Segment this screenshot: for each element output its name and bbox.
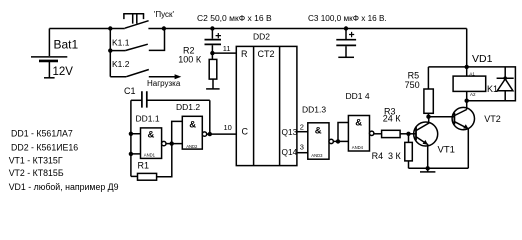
pushbutton 'Пуск' SB1 <box>123 10 174 28</box>
svg-text:&: & <box>189 119 196 130</box>
svg-text:DD2 - К561ИЕ16: DD2 - К561ИЕ16 <box>11 143 78 153</box>
resistor R1 <box>131 144 172 181</box>
parts list <box>9 128 119 192</box>
wire top rail right <box>148 28 466 30</box>
svg-text:750: 750 <box>405 80 420 90</box>
wire Q13 pin 2 <box>297 131 308 133</box>
wire relay loop <box>467 67 516 101</box>
resistor R5 <box>405 67 434 117</box>
svg-text:A2: A2 <box>470 92 476 97</box>
node rail-K1.1 junction <box>108 26 112 30</box>
svg-text:12V: 12V <box>53 66 74 78</box>
svg-text:K1.2: K1.2 <box>112 59 130 69</box>
gate DD1.4 <box>346 91 374 151</box>
svg-text:Q13: Q13 <box>282 127 298 137</box>
svg-text:10: 10 <box>224 123 232 132</box>
svg-text:DD1.1: DD1.1 <box>136 113 160 123</box>
svg-text:AND3: AND3 <box>311 153 323 158</box>
ground (C3) <box>338 56 354 58</box>
svg-text:C3 100,0 мкФ х 16 В.: C3 100,0 мкФ х 16 В. <box>308 14 387 23</box>
svg-text:3 К: 3 К <box>388 151 402 161</box>
svg-text:VD1 - любой, например Д9: VD1 - любой, например Д9 <box>9 182 119 192</box>
resistor R2 <box>178 45 217 89</box>
svg-text:AND4: AND4 <box>352 145 364 150</box>
svg-text:VT2 - КТ815Б: VT2 - КТ815Б <box>9 168 64 178</box>
wire VT1 collector to VT2 base <box>429 116 455 118</box>
wire emitter ground bus <box>409 167 469 169</box>
svg-text:&: & <box>355 118 362 129</box>
ground (emitters) <box>427 168 429 172</box>
svg-text:VD1: VD1 <box>472 53 493 65</box>
svg-text:AND1: AND1 <box>144 153 156 158</box>
transistor VT2 <box>452 101 501 169</box>
svg-text:Нагрузка: Нагрузка <box>147 79 181 88</box>
switch K1.1 <box>108 29 164 77</box>
svg-text:R4: R4 <box>372 151 384 161</box>
svg-text:VT2: VT2 <box>484 114 501 124</box>
switch K1.2 <box>110 59 149 77</box>
svg-text:VT1: VT1 <box>438 144 455 155</box>
svg-text:&: & <box>315 125 322 136</box>
svg-text:Q14: Q14 <box>282 147 298 157</box>
svg-text:CT2: CT2 <box>258 49 275 59</box>
node DD1.1 input taps <box>129 132 133 136</box>
counter DD2 <box>236 31 297 165</box>
wire DD1.3 out to DD1.4 <box>333 140 348 142</box>
svg-text:DD1.2: DD1.2 <box>176 102 200 112</box>
battery Bat1 <box>31 29 79 78</box>
svg-text:DD2: DD2 <box>253 31 270 41</box>
node rail-button-right junction <box>162 26 166 30</box>
wire supply drop to relay <box>466 29 468 67</box>
svg-text:VT1 - КТ315Г: VT1 - КТ315Г <box>9 155 63 165</box>
svg-text:C1: C1 <box>124 86 136 96</box>
resistor R3 <box>382 106 416 137</box>
capacitor C2 <box>197 13 272 53</box>
load arrow Нагрузка <box>147 74 181 88</box>
wire DD2 pin R (11) <box>210 51 214 55</box>
svg-text:K1: K1 <box>487 84 498 94</box>
gate DD1.3 <box>302 104 333 159</box>
wire top rail left <box>49 28 124 30</box>
svg-text:'Пуск': 'Пуск' <box>154 10 175 19</box>
svg-text:24 К: 24 К <box>383 113 402 123</box>
svg-text:A1: A1 <box>469 72 475 77</box>
transistor VT1 <box>414 117 455 169</box>
wire DD1.4 out to R3 <box>374 133 382 135</box>
svg-text:R: R <box>241 49 248 59</box>
svg-text:3: 3 <box>300 143 304 152</box>
gate DD1.1 <box>131 113 166 158</box>
wire DD1.1 out to DD1.2 <box>166 143 182 145</box>
svg-text:Bat1: Bat1 <box>54 38 79 52</box>
svg-text:AND2: AND2 <box>186 144 198 149</box>
svg-text:C: C <box>242 127 249 137</box>
capacitor C3 <box>308 14 387 58</box>
svg-text:DD1 - К561ЛА7: DD1 - К561ЛА7 <box>11 128 73 138</box>
svg-text:C2 50,0 мкФ х 16 В: C2 50,0 мкФ х 16 В <box>197 13 272 23</box>
svg-text:&: & <box>148 130 155 141</box>
svg-text:K1.1: K1.1 <box>112 37 130 47</box>
relay coil K1 <box>453 67 498 103</box>
svg-text:2: 2 <box>300 123 304 132</box>
svg-text:11: 11 <box>223 44 231 53</box>
svg-text:100 К: 100 К <box>178 54 202 64</box>
svg-text:DD1 4: DD1 4 <box>346 91 370 101</box>
svg-text:R5: R5 <box>408 70 420 80</box>
wire Q14 pin 3 <box>297 152 308 154</box>
svg-text:DD1.3: DD1.3 <box>302 104 326 114</box>
capacitor C1 <box>124 86 210 108</box>
resistor R4 <box>372 134 413 169</box>
wire DD1.2 out to DD2 pin C (10) <box>207 133 237 135</box>
gate DD1.2 <box>176 102 207 149</box>
wire R5 top to relay node <box>428 66 466 68</box>
node R5 / VT1 collector / VT2 base <box>426 115 430 119</box>
diode VD1 <box>497 67 514 101</box>
ground (R2) <box>206 88 220 90</box>
wire DD1.1 input bus <box>130 100 132 176</box>
svg-text:R1: R1 <box>138 161 150 171</box>
